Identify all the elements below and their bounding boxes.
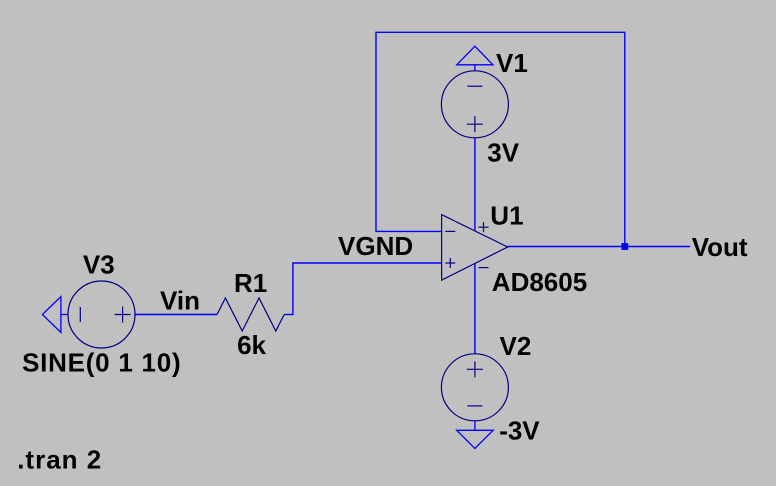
ground flag at V3 bbox=[42, 297, 68, 333]
wire VGND vertical bbox=[292, 263, 294, 315]
wire R1 to corner bbox=[284, 314, 293, 316]
voltage source V2 bbox=[441, 354, 508, 421]
svg-text:VGND: VGND bbox=[338, 231, 413, 261]
node output junction bbox=[621, 243, 628, 250]
wire to non-inverting input bbox=[292, 262, 441, 264]
svg-text:3V: 3V bbox=[487, 137, 519, 167]
svg-text:.tran 2: .tran 2 bbox=[17, 445, 102, 475]
svg-text:U1: U1 bbox=[490, 201, 523, 231]
wire feedback right vertical bbox=[624, 32, 626, 246]
wire V+ supply bbox=[474, 138, 476, 231]
svg-text:SINE(0 1 10): SINE(0 1 10) bbox=[22, 347, 181, 377]
svg-text:AD8605: AD8605 bbox=[492, 267, 587, 297]
svg-text:V2: V2 bbox=[500, 331, 532, 361]
wire V- supply bbox=[474, 264, 476, 354]
svg-text:-3V: -3V bbox=[499, 416, 540, 446]
wire feedback left vertical bbox=[375, 32, 377, 231]
svg-text:V1: V1 bbox=[496, 48, 528, 78]
wire to inverting input bbox=[375, 230, 441, 232]
wire feedback top horizontal bbox=[375, 31, 625, 33]
wire output to Vout bbox=[508, 246, 691, 248]
voltage source V1 bbox=[441, 71, 508, 138]
op-amp U1 bbox=[442, 215, 508, 281]
wire Vin net bbox=[135, 314, 217, 316]
resistor R1 bbox=[217, 298, 284, 331]
ground flag at V2 bbox=[457, 421, 493, 449]
svg-text:V3: V3 bbox=[83, 249, 115, 279]
svg-text:6k: 6k bbox=[237, 330, 266, 360]
svg-text:R1: R1 bbox=[234, 268, 267, 298]
ground flag at V1 bbox=[457, 46, 493, 71]
voltage source V3 bbox=[68, 281, 135, 348]
svg-text:Vin: Vin bbox=[160, 286, 200, 316]
svg-text:Vout: Vout bbox=[692, 232, 748, 262]
